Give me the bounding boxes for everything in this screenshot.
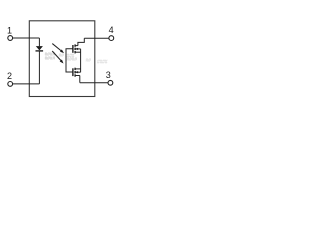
svg-text:4: 4 [109, 25, 114, 35]
svg-text:####: #### [45, 56, 56, 62]
svg-text:3: 3 [106, 70, 111, 80]
svg-text:####: #### [97, 59, 108, 65]
svg-text:2: 2 [7, 71, 12, 81]
svg-text:####: #### [67, 57, 78, 63]
svg-text:##: ## [86, 58, 92, 64]
svg-text:1: 1 [7, 26, 12, 36]
